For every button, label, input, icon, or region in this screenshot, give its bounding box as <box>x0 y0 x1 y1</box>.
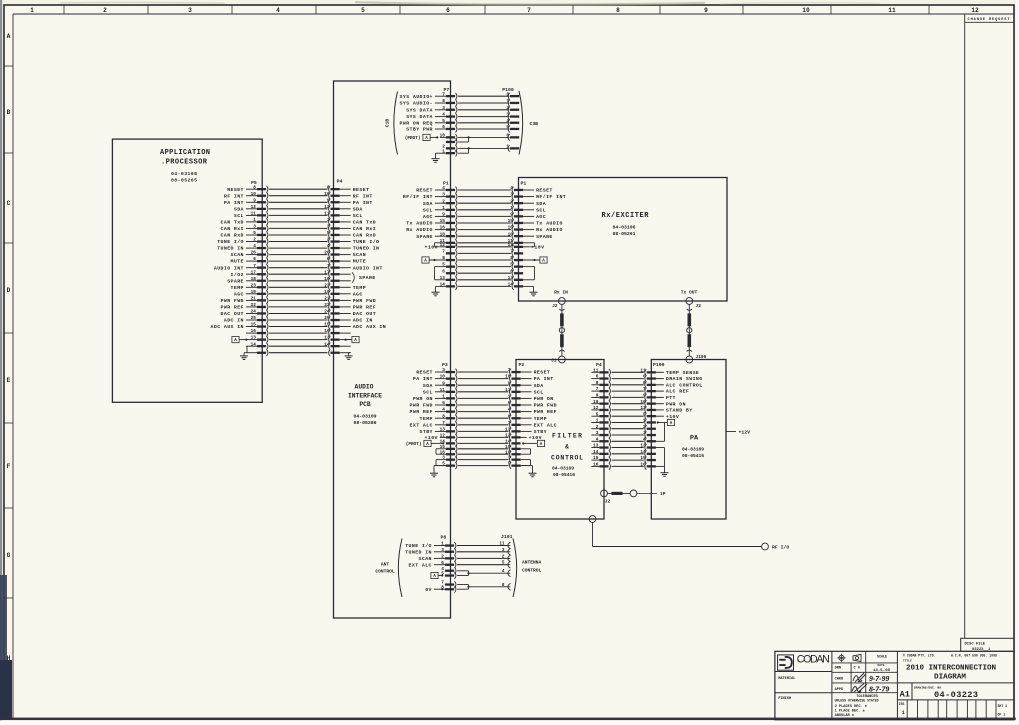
svg-text:24: 24 <box>251 310 257 315</box>
P3 pin 3 RESET <box>416 368 457 376</box>
svg-text:© CODAN PTY. LTD.: © CODAN PTY. LTD. <box>903 653 936 657</box>
P4 pin 8 RESET <box>327 185 370 193</box>
P2 pin 12 +10V <box>505 434 542 442</box>
svg-text:12: 12 <box>440 243 446 248</box>
P2 pins 3-5 jumper <box>521 460 531 466</box>
P5 pin 3 CAN RxI <box>221 225 268 233</box>
svg-text:EXT ALC: EXT ALC <box>410 422 433 428</box>
P1R pin 7 <box>510 250 523 257</box>
connector P100 on PA <box>640 362 702 476</box>
P100PA pin 15 <box>640 456 655 463</box>
issue strip <box>899 700 1008 720</box>
svg-text:8: 8 <box>442 99 445 104</box>
svg-text:TEMP: TEMP <box>231 285 244 291</box>
P1L pin 7 <box>442 250 457 257</box>
ground at P2 <box>521 466 533 470</box>
P1R pin 3 RF/IF INT <box>510 193 566 201</box>
svg-text:1: 1 <box>596 419 599 424</box>
svg-text:PWR FWD: PWR FWD <box>410 403 433 409</box>
svg-text:9: 9 <box>442 381 445 386</box>
P7 pin 10 (PROT) <box>440 134 457 141</box>
P100PA pin 7 ALC REF <box>643 387 689 395</box>
P8 pin 6 EXT ALC <box>409 561 456 569</box>
P4F pin 13 <box>591 444 610 451</box>
svg-text:J100: J100 <box>696 354 707 360</box>
connector P4 on AUDIO INTERFACE PCB (left) <box>324 179 386 360</box>
svg-text:SCL: SCL <box>353 213 363 219</box>
svg-text:AGC: AGC <box>234 291 244 297</box>
P2 pin 8 TEMP <box>508 414 547 422</box>
J101 pin 3 <box>502 548 511 555</box>
svg-text:04-03169: 04-03169 <box>682 447 704 453</box>
svg-text:15: 15 <box>440 219 446 224</box>
P5 pin 8 RESET <box>227 185 268 193</box>
svg-text:SCL: SCL <box>423 207 433 213</box>
P2 pin 5 <box>508 462 521 469</box>
P4 pin 9 PA INT <box>327 198 373 206</box>
svg-text:CONTROL: CONTROL <box>375 569 395 575</box>
P5 pin 23 TEMP <box>231 283 268 291</box>
wire bundle P3 to P2 <box>458 372 508 466</box>
svg-text:15: 15 <box>251 323 257 328</box>
svg-text:ALC REF: ALC REF <box>666 389 689 395</box>
svg-text:ADC IN: ADC IN <box>224 318 244 324</box>
P3 pin 16 <box>440 450 457 457</box>
svg-text:SCAN: SCAN <box>353 252 366 258</box>
P5 pin 17 I/O2 <box>231 270 268 278</box>
cable connector P100 (C3B) <box>502 87 519 152</box>
J101 pin 4 <box>502 569 511 576</box>
svg-text:2010 INTERCONNECTION: 2010 INTERCONNECTION <box>906 665 996 673</box>
svg-text:PA: PA <box>690 435 699 443</box>
ground at P1 left <box>436 286 446 289</box>
P5 pin 12 SDA <box>234 205 268 213</box>
P8 pin 5 <box>441 572 456 579</box>
P1R pin 9 AGC <box>510 213 546 221</box>
P4F pin 11 <box>591 368 610 375</box>
P100PA pin 5 +10V <box>643 412 679 420</box>
svg-text:PWR REF: PWR REF <box>534 409 557 415</box>
tolerances text <box>835 695 879 718</box>
svg-text:9: 9 <box>596 394 599 399</box>
connector P8 on AUDIO INTERFACE PCB <box>405 535 456 593</box>
svg-text:SCL: SCL <box>234 213 244 219</box>
P3 pin 11 SCL <box>423 388 457 396</box>
svg-text:SYS AUDIO+: SYS AUDIO+ <box>400 94 433 100</box>
svg-text:04-03106: 04-03106 <box>612 225 635 231</box>
svg-text:1: 1 <box>442 206 445 211</box>
svg-text:Rx AUDIO: Rx AUDIO <box>536 227 563 233</box>
wire filter output to RF I/O <box>589 516 761 547</box>
P5 pin 10 RF INT <box>224 192 268 200</box>
svg-text:6: 6 <box>442 269 445 274</box>
svg-text:CAN TxD: CAN TxD <box>221 220 244 226</box>
svg-text:APPD: APPD <box>835 688 844 692</box>
svg-text:10: 10 <box>440 134 446 139</box>
P4 pin 26 SCAN <box>324 251 366 259</box>
svg-text:RESET: RESET <box>536 188 553 194</box>
P1R pin 2 SDA <box>510 199 546 207</box>
P100PA pin 4 <box>643 437 656 444</box>
P4F pin 7 <box>591 387 610 394</box>
title block <box>775 651 1014 720</box>
svg-text:2 PLACES DEC. ±: 2 PLACES DEC. ± <box>835 705 867 709</box>
svg-text:10: 10 <box>802 7 810 14</box>
svg-text:12: 12 <box>971 7 979 14</box>
module: Rx/EXCITER (04-03106 / 08-05261) <box>519 178 728 302</box>
svg-text:3: 3 <box>441 548 444 553</box>
svg-text:A: A <box>7 33 11 40</box>
P8 pin 8 0V <box>425 585 456 593</box>
P4 pin 4 TUNED IN <box>327 244 380 252</box>
svg-text:PWR FWD: PWR FWD <box>221 298 244 304</box>
P1R pin 1 SCL <box>510 206 546 214</box>
P100 pin 7 <box>506 99 519 106</box>
P5 pin 21 PWR FWD <box>221 297 268 305</box>
svg-text:RESET: RESET <box>353 187 370 193</box>
P2 pin 7 EXT ALC <box>508 421 557 429</box>
svg-text:3: 3 <box>188 7 192 14</box>
svg-text:1 PLACE DEC. ±: 1 PLACE DEC. ± <box>835 710 865 714</box>
svg-text:I/O2: I/O2 <box>231 272 244 278</box>
P1L pin 9 AGC <box>423 213 457 221</box>
P8 pin 7 <box>441 581 456 588</box>
svg-text:6: 6 <box>442 401 445 406</box>
coax cable Tx OUT to J100 <box>687 304 692 356</box>
svg-text:CODAN: CODAN <box>797 653 830 665</box>
svg-text:TUNE I/O: TUNE I/O <box>405 543 432 549</box>
svg-text:SDA: SDA <box>423 383 433 389</box>
svg-text:ANT: ANT <box>381 562 390 568</box>
svg-text:+10V: +10V <box>531 244 544 250</box>
title block fields <box>835 655 891 692</box>
P3 pin 15 <box>440 445 457 452</box>
P100PA pin 10 PWR ON <box>640 400 685 408</box>
P100PA pin 14 <box>640 450 655 457</box>
P4 pin 19 AGC <box>324 290 362 298</box>
P5 pin 26 SCAN <box>231 251 268 259</box>
wire bundle P1 to P1 <box>458 190 511 286</box>
svg-text:13: 13 <box>440 428 446 433</box>
P2 pin 15 <box>505 445 520 452</box>
svg-text:RESET: RESET <box>416 370 433 376</box>
svg-text:SPARE: SPARE <box>359 275 376 281</box>
svg-text:UNLESS OTHERWISE STATED: UNLESS OTHERWISE STATED <box>835 699 879 703</box>
P4 pin 11 SCL <box>324 212 362 220</box>
projection symbol <box>837 654 846 663</box>
svg-text:RESET: RESET <box>534 370 551 376</box>
svg-text:8: 8 <box>253 185 256 190</box>
P100 pin 6 <box>506 92 519 99</box>
P1L pin 12 +10V <box>425 243 457 251</box>
svg-text:10: 10 <box>593 400 599 405</box>
P1L pin 6 <box>442 269 457 276</box>
J101 pin 11 <box>499 542 510 549</box>
P4 pin 18 <box>324 277 350 284</box>
P1L pin 3 RF/IF INT <box>403 193 457 201</box>
svg-text:P1: P1 <box>521 181 527 187</box>
svg-text:TEMP: TEMP <box>534 416 547 422</box>
P1 left +10V jumper <box>435 243 446 247</box>
node J1 on FILTER & CONTROL <box>551 356 565 363</box>
svg-text:PCB: PCB <box>359 401 371 408</box>
P5 pin 22 PWR REF <box>221 303 268 311</box>
P4F pin 2 <box>591 425 610 432</box>
svg-text:13: 13 <box>251 336 257 341</box>
svg-text:4: 4 <box>442 113 445 118</box>
(PROT) label and net A box at P3 <box>406 440 445 447</box>
P2 pin 13 STBY <box>505 428 547 436</box>
svg-text:SCL: SCL <box>534 389 544 395</box>
P100 pin 3 <box>506 113 519 120</box>
third angle symbol <box>853 654 861 661</box>
svg-text:SCALE: SCALE <box>877 655 887 659</box>
svg-text:12: 12 <box>251 205 257 210</box>
P100PA pin 9 PTT <box>643 394 676 402</box>
svg-text:6: 6 <box>253 257 256 262</box>
P4 pin x <box>329 349 351 356</box>
svg-text:4: 4 <box>596 437 599 442</box>
P1 right +10V jumper <box>523 243 534 247</box>
svg-text:11: 11 <box>593 368 599 373</box>
P1R pin 12 +10V <box>508 243 545 251</box>
svg-text:TEMP: TEMP <box>353 285 366 291</box>
connector P3 on AUDIO INTERFACE PCB <box>406 362 457 477</box>
svg-text:AGC: AGC <box>423 214 433 220</box>
svg-text:ALC CONTROL: ALC CONTROL <box>666 382 703 388</box>
P1L pin 10 SPARE <box>416 232 457 240</box>
svg-text:04-03169: 04-03169 <box>552 466 574 472</box>
P1R pin 5 <box>510 263 523 270</box>
svg-text:8: 8 <box>596 381 599 386</box>
P3 pin 12 +10V <box>425 434 457 442</box>
svg-text:STBY PWR: STBY PWR <box>406 127 433 133</box>
P8 pins 4-5 jumper staple, wire to J101 pin 4 <box>457 571 507 576</box>
svg-text:6: 6 <box>442 125 445 130</box>
P1R pin 14 <box>508 283 523 290</box>
svg-text:SDA: SDA <box>423 201 433 207</box>
P4 pin 5 CAN RxD <box>327 231 376 239</box>
P5 pin 1 CAN TxD <box>221 218 268 226</box>
P1L pin 16 Rx AUDIO <box>406 226 457 234</box>
svg-text:PA INT: PA INT <box>224 200 244 206</box>
svg-text:Rx/EXCITER: Rx/EXCITER <box>602 212 650 220</box>
svg-text:5: 5 <box>253 231 256 236</box>
svg-text:7: 7 <box>442 92 445 97</box>
P100PA pin 3 <box>643 431 656 438</box>
svg-text:21: 21 <box>251 297 257 302</box>
svg-text:08-05265: 08-05265 <box>171 177 197 183</box>
svg-text:DAC OUT: DAC OUT <box>221 311 244 317</box>
svg-text:ADC IN: ADC IN <box>353 318 373 324</box>
P3 pin 9 SDA <box>423 381 457 389</box>
svg-text:11: 11 <box>888 7 896 14</box>
P5 pin 6 MUTE <box>231 257 268 265</box>
svg-text:CAN TxD: CAN TxD <box>353 220 376 226</box>
P100 pin 8 <box>506 134 519 141</box>
svg-text:14-5-98: 14-5-98 <box>873 669 890 673</box>
svg-text:RF INT: RF INT <box>224 193 244 199</box>
P3 pin 3 <box>442 456 457 463</box>
svg-text:RF INT: RF INT <box>353 193 373 199</box>
svg-text:AGC: AGC <box>353 291 363 297</box>
svg-text:7: 7 <box>253 264 256 269</box>
svg-text:AUDIO INT: AUDIO INT <box>353 265 383 271</box>
P7 pin 9 <box>446 139 457 146</box>
ground at P1 right <box>523 286 533 289</box>
P7 pin 6 STBY PWR <box>406 125 457 133</box>
P4 pin 1 CAN TxD <box>327 218 376 226</box>
svg-text:5: 5 <box>361 7 365 14</box>
ANT CONTROL brace <box>375 539 402 598</box>
svg-text:SDA: SDA <box>534 383 544 389</box>
svg-text:CAN RxI: CAN RxI <box>353 226 376 232</box>
svg-text:APPLICATION: APPLICATION <box>160 149 210 157</box>
svg-text:18: 18 <box>251 277 257 282</box>
ground at P7 <box>436 153 446 155</box>
svg-text:.PROCESSOR: .PROCESSOR <box>161 159 208 167</box>
svg-text:7: 7 <box>442 421 445 426</box>
svg-text:Tx AUDIO: Tx AUDIO <box>406 221 433 227</box>
svg-text:J2: J2 <box>696 303 702 309</box>
P1L pin 8 <box>442 256 457 263</box>
svg-text:PWR FWD: PWR FWD <box>353 298 376 304</box>
P4 pin 15 ADC AUX IN <box>324 323 386 331</box>
(PROT) net A label <box>405 134 439 141</box>
J101 pin 8 <box>502 583 511 590</box>
P1L pin 14 <box>440 283 457 290</box>
module: APPLICATION PROCESSOR (04-03108 / 08-05265) <box>112 139 262 402</box>
svg-text:TITLE: TITLE <box>903 659 912 662</box>
P8 pin 1 TUNE I/O <box>405 542 456 550</box>
svg-text:19: 19 <box>251 290 257 295</box>
P5 pin 14 <box>246 342 268 349</box>
svg-text:PWR ON: PWR ON <box>666 401 686 407</box>
svg-text:H: H <box>7 655 11 662</box>
svg-text:9: 9 <box>704 7 708 14</box>
svg-text:FILTER: FILTER <box>552 433 582 440</box>
0V lead <box>441 588 443 590</box>
connector P1 on Rx/EXCITER <box>508 181 566 296</box>
P7 pin 8 SYS AUDIO- <box>400 99 457 107</box>
P100 pins 13-16 jumper <box>656 448 665 467</box>
svg-text:7: 7 <box>527 7 531 14</box>
svg-text:8: 8 <box>442 414 445 419</box>
P2 pin 4 PWR REF <box>508 408 557 416</box>
svg-text:STAND BY: STAND BY <box>666 408 693 414</box>
P4 pin 21 PWR FWD <box>324 297 376 305</box>
svg-text:8: 8 <box>616 7 620 14</box>
svg-text:2: 2 <box>253 238 256 243</box>
svg-text:1: 1 <box>441 542 444 547</box>
P5 pin x <box>246 349 268 356</box>
svg-text:9-7-99: 9-7-99 <box>869 676 889 683</box>
ANTENNA CONTROL brace <box>513 539 542 598</box>
P1R pin 8 <box>510 256 523 263</box>
svg-text:PTT: PTT <box>666 395 676 401</box>
P100 pin 4 <box>506 119 519 126</box>
P1 right pins 5-6-13 jumper <box>523 267 534 280</box>
P3 pin 8 TEMP <box>420 414 457 422</box>
P1L pin 4 RESET <box>416 186 457 194</box>
svg-text:PWR REF: PWR REF <box>221 305 244 311</box>
svg-text:J1: J1 <box>551 357 557 363</box>
svg-text:G: G <box>7 552 11 559</box>
svg-text:1: 1 <box>30 7 34 14</box>
P5 pin 13 <box>246 336 268 343</box>
svg-text:OF 1: OF 1 <box>998 712 1006 716</box>
svg-text:STBY: STBY <box>420 429 433 435</box>
svg-text:P4: P4 <box>337 179 343 185</box>
module: FILTER & CONTROL (04-03169 / 08-05416) <box>516 360 604 520</box>
svg-text:PA INT: PA INT <box>534 376 554 382</box>
svg-text:04-03109: 04-03109 <box>353 414 376 420</box>
P1R pin 13 <box>508 276 523 283</box>
svg-text:C1B: C1B <box>385 119 391 128</box>
P2 pins 15-16 jumper <box>521 449 531 454</box>
svg-text:P100: P100 <box>653 362 665 368</box>
svg-text:INTERFACE: INTERFACE <box>348 393 382 400</box>
P1 left net A box <box>422 257 446 264</box>
P4 pin 22 PWR REF <box>324 303 376 311</box>
svg-text:Tx AUDIO: Tx AUDIO <box>536 221 563 227</box>
svg-text:SCL: SCL <box>536 207 546 213</box>
svg-text:EXT ALC: EXT ALC <box>534 422 557 428</box>
P4 pin 13 <box>324 336 350 343</box>
P4F pin 14 <box>591 450 610 457</box>
svg-text:PA INT: PA INT <box>413 376 433 382</box>
P4F pin 8 <box>591 381 610 388</box>
svg-text:ANGULAR ±: ANGULAR ± <box>835 714 854 718</box>
P7 pin 7 SYS AUDIO+ <box>400 92 457 100</box>
cable C3B brace <box>519 91 538 155</box>
svg-text:3: 3 <box>442 193 445 198</box>
svg-text:4: 4 <box>442 186 445 191</box>
svg-text:TUNED IN: TUNED IN <box>353 246 380 252</box>
P3 pins 15-16 jumper <box>436 449 446 454</box>
svg-text:26: 26 <box>251 251 257 256</box>
J101 pin 2 <box>502 554 511 561</box>
P1R pin 10 SPARE <box>508 232 553 240</box>
svg-text:Rx AUDIO: Rx AUDIO <box>406 227 433 233</box>
P4 pin 25 ADC IN <box>324 316 372 324</box>
svg-text:CAN RxD: CAN RxD <box>353 233 376 239</box>
svg-text:AUDIO INT: AUDIO INT <box>214 265 244 271</box>
svg-text:RF/IF INT: RF/IF INT <box>403 194 433 200</box>
svg-text:J101: J101 <box>501 534 513 540</box>
svg-text:TUNE I/O: TUNE I/O <box>217 239 244 245</box>
coax cable Rx IN to J1 <box>559 304 564 356</box>
P100PA pin 11 TEMP SENSE <box>640 368 699 376</box>
svg-text:+12V: +12V <box>739 430 751 436</box>
svg-text:(PROT): (PROT) <box>405 136 421 141</box>
svg-text:RESET: RESET <box>416 188 433 194</box>
P4 pin 14 <box>324 342 350 349</box>
disc file box <box>961 638 1014 652</box>
svg-text:DISC FILE: DISC FILE <box>965 642 986 646</box>
svg-text:10: 10 <box>251 192 257 197</box>
svg-text:3: 3 <box>596 431 599 436</box>
svg-text:4: 4 <box>253 244 256 249</box>
P100 pin 2 <box>506 106 519 113</box>
svg-text:MATERIAL: MATERIAL <box>778 677 795 681</box>
svg-text:P4: P4 <box>596 362 602 368</box>
svg-text:PWR ON: PWR ON <box>413 396 433 402</box>
P2 pin 11 SCL <box>505 388 543 396</box>
svg-text:&: & <box>565 444 569 451</box>
svg-text:SPARE: SPARE <box>416 234 433 240</box>
net +12V at PA <box>726 430 750 436</box>
